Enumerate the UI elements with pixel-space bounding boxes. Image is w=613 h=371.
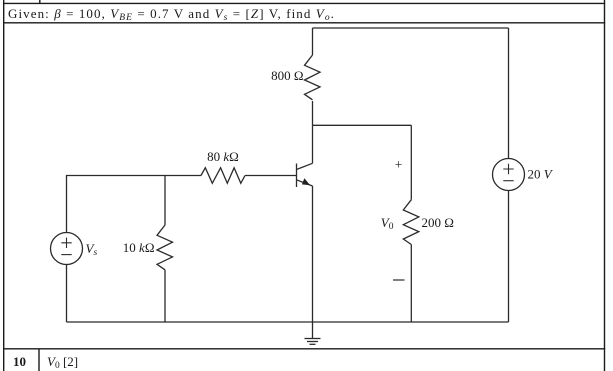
wire 800 top	[312, 28, 314, 55]
label minus V0	[393, 279, 405, 281]
resistor R3 800 zigzag	[305, 55, 321, 100]
wire 200 bottom	[410, 245, 412, 323]
node B wire right	[313, 124, 412, 126]
wire right top	[508, 28, 510, 159]
collector wire up to node B	[312, 125, 314, 163]
voltage source V2 20V	[493, 159, 525, 191]
table right border	[604, 0, 606, 371]
table rule above score row	[3, 348, 605, 350]
svg-text:200 Ω: 200 Ω	[422, 215, 454, 230]
wire top-left from Vs to node A	[67, 176, 166, 233]
ground bar 2	[307, 341, 318, 343]
V2 minus sign	[503, 180, 513, 182]
svg-text:+: +	[395, 157, 403, 172]
ground bar 3	[310, 343, 316, 345]
transistor Q1 base bar	[296, 164, 298, 188]
resistor R1 10k zigzag	[157, 225, 173, 270]
wire Vs bottom	[66, 265, 68, 323]
resistor R4 200 zigzag	[403, 200, 419, 245]
score row divider	[38, 349, 40, 371]
voltage source Vs	[51, 233, 83, 265]
transistor Q1 emitter diagonal	[297, 180, 313, 186]
V2 plus sign	[503, 164, 513, 174]
svg-text:Given: β = 100, VBE = 0.7 V a: Given: β = 100, VBE = 0.7 V and Vs = [Z]…	[8, 6, 335, 23]
wire node B to 800 resistor	[312, 101, 314, 125]
node A wire to 80k resistor	[165, 175, 201, 177]
svg-text:800 Ω: 800 Ω	[271, 68, 303, 83]
svg-text:20 V: 20 V	[528, 167, 554, 182]
svg-text:V0 [2]: V0 [2]	[47, 354, 78, 371]
table left border	[3, 0, 5, 371]
svg-text:80 kΩ: 80 kΩ	[207, 149, 239, 164]
wire 10k bottom	[164, 270, 166, 322]
Vs plus sign	[61, 238, 71, 248]
wire 80k to base	[245, 175, 297, 177]
wire node A down to 10k	[164, 176, 166, 226]
table rule under given row	[3, 22, 605, 24]
top column tick	[39, 0, 41, 3]
top wire	[313, 27, 509, 29]
emitter wire down to ground	[312, 186, 314, 339]
svg-text:10: 10	[13, 354, 26, 369]
bottom wire	[67, 321, 509, 323]
resistor R2 80k zigzag	[201, 168, 245, 184]
transistor Q1 emitter arrow	[302, 178, 310, 185]
ground bar 1	[305, 338, 321, 340]
svg-text:10 kΩ: 10 kΩ	[123, 240, 155, 255]
wire node B down to 200	[410, 125, 412, 199]
transistor Q1 collector diagonal	[297, 163, 313, 169]
wire right bottom	[508, 191, 510, 323]
table top rule	[3, 2, 605, 4]
Vs minus sign	[61, 254, 71, 256]
